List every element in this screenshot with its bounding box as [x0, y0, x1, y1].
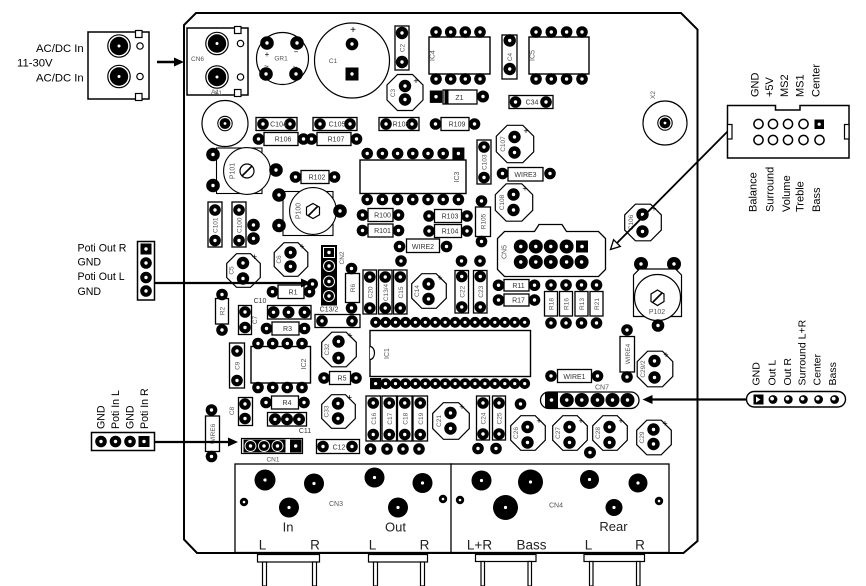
bridge rectifier GR1 [257, 33, 309, 85]
svg-text:+: + [663, 350, 668, 360]
labels Poti Out [78, 243, 127, 299]
connector CN3 [235, 464, 452, 553]
svg-text:L+R: L+R [467, 538, 492, 553]
capacitor C29/2 [637, 350, 673, 387]
svg-text:+: + [459, 402, 464, 412]
capacitor C3 [387, 75, 423, 111]
connector CN5 [498, 225, 606, 277]
svg-text:R11: R11 [512, 283, 524, 290]
svg-text:C28: C28 [595, 427, 602, 439]
capacitor C100 [232, 202, 246, 247]
connector output cable [747, 392, 846, 408]
svg-text:+: + [299, 242, 304, 252]
svg-text:P101: P101 [230, 163, 237, 179]
svg-text:R: R [310, 538, 320, 553]
svg-text:In: In [283, 520, 294, 535]
capacitor C18 [398, 396, 413, 441]
svg-text:Rear: Rear [599, 519, 628, 534]
pad [515, 398, 527, 410]
capacitor C107 [496, 125, 533, 162]
capacitor C27 [553, 416, 588, 451]
pad [381, 443, 393, 455]
svg-text:GND: GND [125, 405, 137, 429]
board outline [184, 13, 698, 553]
svg-text:C100: C100 [237, 217, 244, 233]
capacitor C33 [322, 393, 356, 429]
diode Z1 [430, 90, 489, 104]
svg-text:R4: R4 [283, 400, 292, 407]
capacitor C24 [477, 396, 490, 440]
capacitor C13/4 [379, 270, 393, 314]
svg-text:R103: R103 [442, 214, 459, 221]
label AC/DC In (bottom) [36, 73, 84, 85]
svg-text:Z1: Z1 [455, 95, 463, 102]
svg-text:IC4: IC4 [430, 50, 437, 61]
svg-text:+: + [347, 393, 352, 403]
svg-text:AC/DC In: AC/DC In [36, 43, 84, 55]
svg-text:IC3: IC3 [454, 171, 461, 182]
capacitor C17 [382, 396, 397, 441]
pad [413, 443, 425, 455]
svg-text:C29: C29 [639, 431, 646, 443]
capacitor C104 [256, 118, 297, 131]
resistor R18 [545, 279, 558, 329]
svg-text:GND: GND [78, 257, 102, 269]
svg-text:CN7: CN7 [595, 385, 609, 392]
svg-text:R107: R107 [328, 137, 345, 144]
capacitor C23 [474, 271, 488, 314]
header Poti In [92, 433, 155, 451]
svg-text:+: + [265, 50, 270, 59]
svg-text:L: L [585, 538, 593, 553]
svg-text:WIRE1: WIRE1 [563, 374, 585, 381]
pad [395, 255, 407, 267]
resistor R103 [423, 210, 473, 223]
svg-text:R101: R101 [374, 228, 391, 235]
bottom labels L R [259, 538, 645, 553]
resistor R104 [423, 225, 473, 238]
svg-text:C14: C14 [414, 285, 421, 297]
arrow Poti In to CN1 [155, 438, 239, 447]
svg-text:+: + [523, 126, 528, 136]
resistor R108 [379, 118, 419, 131]
svg-text:MS1: MS1 [795, 74, 807, 97]
svg-text:C13/2: C13/2 [320, 307, 339, 314]
svg-text:C15: C15 [398, 286, 405, 298]
svg-text:GND: GND [78, 286, 102, 298]
svg-text:X1: X1 [214, 90, 222, 97]
svg-text:R: R [635, 538, 645, 553]
svg-text:C9: C9 [235, 361, 242, 370]
labels output cable [751, 319, 840, 385]
capacitor C108 [495, 184, 532, 222]
resistor R106 [253, 133, 310, 146]
svg-text:+5V: +5V [764, 76, 776, 97]
pad [247, 232, 260, 245]
wire control cable to CN5 [611, 132, 728, 250]
svg-text:C107: C107 [500, 136, 507, 152]
labels Poti In [96, 388, 152, 429]
svg-text:+: + [437, 273, 442, 283]
mounting hole X2 [643, 91, 687, 145]
svg-text:+: + [522, 184, 527, 194]
svg-text:R13: R13 [579, 298, 586, 310]
resistor R107 [306, 133, 363, 146]
svg-text:R100: R100 [374, 213, 391, 220]
capacitor C5 [227, 252, 261, 287]
svg-text:R3: R3 [283, 326, 292, 333]
resistor R21 [590, 279, 603, 329]
svg-text:Surround L+R: Surround L+R [797, 319, 809, 385]
capacitor C8 [229, 398, 253, 426]
svg-text:C34: C34 [526, 100, 539, 107]
svg-text:Center: Center [811, 64, 823, 97]
svg-text:−: − [294, 48, 299, 57]
svg-text:Poti Out L: Poti Out L [78, 271, 125, 283]
svg-text:C6: C6 [276, 255, 283, 264]
svg-text:Bass: Bass [827, 362, 839, 385]
Rear jack tabs [584, 555, 645, 586]
wire jumper WIRE3 [497, 168, 556, 182]
resistor R3 [261, 322, 311, 335]
resistor R17 [493, 294, 541, 306]
capacitor C21 [433, 402, 470, 439]
capacitor C6 [274, 242, 308, 277]
connector CN2 [321, 245, 346, 306]
labels control cable bottom [748, 167, 824, 212]
svg-text:Bass: Bass [811, 187, 823, 212]
potentiometer P101 [206, 148, 283, 195]
pad [397, 443, 409, 455]
svg-text:C17: C17 [387, 412, 394, 424]
capacitor C7 [239, 306, 260, 335]
connector control cable (IDC) [728, 106, 850, 159]
svg-text:CN4: CN4 [549, 503, 563, 510]
resistor R105 [476, 195, 491, 247]
resistor R11 [493, 279, 541, 291]
arrow Poti Out to board [155, 279, 312, 288]
pad [456, 255, 468, 267]
svg-text:WIRE3: WIRE3 [514, 172, 536, 179]
svg-text:C2: C2 [400, 43, 407, 52]
resistor R1 [267, 285, 316, 299]
svg-text:IC5: IC5 [530, 50, 537, 61]
header C10 [268, 306, 312, 320]
svg-text:+: + [413, 76, 418, 86]
capacitor C25 [493, 396, 506, 440]
arrow to CN6 [157, 58, 184, 67]
svg-text:L: L [369, 538, 377, 553]
svg-text:P102: P102 [649, 309, 665, 316]
Out jack tabs [369, 555, 428, 586]
svg-text:C24: C24 [481, 412, 488, 424]
pad [365, 443, 377, 455]
svg-text:Treble: Treble [795, 181, 807, 212]
svg-text:C7: C7 [252, 315, 259, 324]
resistor R100 [357, 209, 405, 222]
IC IC1 [370, 317, 531, 389]
capacitor C2 [395, 26, 409, 70]
svg-text:~: ~ [264, 62, 269, 71]
mounting hole X1 [202, 90, 248, 147]
svg-text:C21: C21 [436, 415, 443, 427]
svg-text:GND: GND [96, 405, 108, 429]
pad [584, 447, 596, 459]
svg-text:Balance: Balance [748, 172, 760, 212]
wire jumper WIRE2 [394, 239, 453, 253]
svg-text:+: + [578, 416, 583, 426]
svg-text:CN3: CN3 [329, 501, 343, 508]
svg-text:Surround: Surround [765, 167, 777, 212]
svg-text:C13/4: C13/4 [383, 283, 390, 301]
svg-text:WIRE4: WIRE4 [625, 343, 632, 364]
capacitor C20 [363, 270, 377, 314]
capacitor C1 [315, 23, 390, 98]
svg-text:R106: R106 [275, 137, 292, 144]
capacitor C32 [322, 331, 357, 367]
svg-text:C26: C26 [513, 427, 520, 439]
svg-text:CN6: CN6 [191, 56, 204, 63]
labels control cable top [750, 64, 823, 97]
capacitor C26 [511, 416, 546, 451]
capacitor C28 [593, 416, 628, 451]
external AC/DC terminal block [88, 31, 149, 101]
svg-text:Poti In R: Poti In R [139, 388, 151, 429]
svg-text:R104: R104 [442, 229, 459, 236]
svg-text:Center: Center [812, 353, 824, 385]
pad [307, 279, 318, 290]
svg-text:R17: R17 [512, 298, 525, 305]
svg-text:IC2: IC2 [301, 358, 308, 369]
svg-text:R105: R105 [481, 213, 488, 229]
label 11-30V [17, 58, 53, 70]
capacitor C15 [394, 270, 408, 314]
svg-text:Out R: Out R [782, 358, 794, 386]
resistor R6 [346, 263, 360, 314]
wire jumper WIRE4 [620, 324, 635, 383]
svg-text:+: + [252, 252, 257, 262]
svg-text:P100: P100 [296, 203, 303, 219]
svg-text:C1: C1 [329, 58, 338, 65]
resistor R102 [290, 171, 341, 184]
svg-text:Poti In L: Poti In L [110, 390, 122, 429]
svg-text:MS2: MS2 [779, 74, 791, 97]
wire jumper WIRE6 [206, 404, 220, 462]
svg-text:C29/2: C29/2 [640, 360, 647, 378]
resistor R109 [430, 118, 481, 131]
svg-text:C3: C3 [390, 88, 397, 97]
svg-text:C18: C18 [402, 412, 409, 424]
connector CN4 [451, 464, 669, 553]
svg-text:Out: Out [385, 520, 406, 535]
svg-text:C5: C5 [229, 266, 236, 275]
svg-text:CN2: CN2 [339, 251, 346, 264]
wire jumper WIRE1 [545, 370, 603, 383]
header C11 [268, 413, 312, 436]
svg-text:C16: C16 [371, 412, 378, 424]
capacitor C16 [366, 396, 381, 441]
svg-text:C103: C103 [482, 154, 489, 170]
svg-text:C10: C10 [254, 298, 267, 305]
capacitor C34 [509, 96, 553, 109]
connector CN7 [541, 385, 640, 409]
svg-text:GND: GND [750, 73, 762, 98]
svg-text:C11: C11 [299, 428, 311, 435]
svg-text:C4: C4 [507, 52, 514, 61]
In jack tabs [258, 555, 320, 586]
svg-text:+: + [618, 416, 623, 426]
svg-text:R16: R16 [564, 298, 571, 310]
svg-text:R1: R1 [289, 289, 298, 296]
svg-text:Volume: Volume [781, 175, 793, 212]
svg-text:+: + [347, 331, 352, 341]
svg-text:R21: R21 [594, 298, 601, 310]
svg-text:AC/DC In: AC/DC In [36, 73, 84, 85]
svg-text:+: + [662, 419, 667, 429]
svg-text:IC1: IC1 [384, 348, 391, 359]
svg-text:R109: R109 [449, 122, 466, 129]
resistor R13 [575, 279, 588, 329]
capacitor C29 [637, 419, 672, 455]
svg-text:C23: C23 [478, 285, 485, 297]
svg-text:+: + [350, 25, 356, 36]
svg-text:GND: GND [751, 362, 763, 386]
svg-text:R18: R18 [549, 298, 556, 310]
svg-text:R108: R108 [393, 122, 410, 129]
svg-text:CN1: CN1 [266, 457, 279, 464]
svg-text:C105: C105 [329, 122, 346, 129]
svg-text:GR1: GR1 [274, 56, 288, 63]
resistor R16 [560, 279, 573, 329]
svg-text:Bass: Bass [516, 538, 546, 553]
svg-text:11-30V: 11-30V [17, 58, 53, 70]
IC IC2 [251, 338, 311, 394]
label AC/DC In (top) [36, 43, 84, 55]
svg-text:R6: R6 [350, 283, 357, 292]
pad [490, 443, 502, 455]
svg-text:C33: C33 [324, 405, 331, 417]
resistor R101 [357, 224, 405, 237]
svg-text:R5: R5 [338, 376, 347, 383]
capacitor C103 [477, 140, 491, 184]
resistor R2 [216, 289, 229, 336]
capacitor C101 [208, 202, 222, 247]
capacitor C13/2 [315, 307, 360, 328]
IC IC5 [529, 26, 589, 85]
potentiometer P100 [272, 188, 347, 236]
capacitor C4 [502, 34, 517, 79]
svg-text:C27: C27 [555, 427, 562, 439]
Bass jack tabs [476, 555, 537, 586]
svg-text:R: R [420, 538, 430, 553]
pad [472, 443, 484, 455]
svg-text:CN5: CN5 [502, 245, 509, 259]
pad [247, 219, 260, 232]
svg-text:Poti Out R: Poti Out R [78, 243, 127, 255]
capacitor C19 [413, 396, 428, 441]
svg-text:C8: C8 [229, 406, 236, 415]
svg-text:WIRE2: WIRE2 [412, 244, 434, 251]
svg-text:X2: X2 [650, 91, 657, 99]
label C10 [254, 298, 267, 305]
capacitor C9 [230, 343, 245, 388]
resistor R4 [260, 396, 310, 409]
capacitor C105 [313, 118, 357, 131]
svg-text:C104: C104 [270, 122, 287, 129]
capacitor C14 [412, 273, 447, 308]
capacitor C106 [625, 204, 662, 241]
potentiometer P102 [634, 257, 682, 332]
header Poti Out [138, 242, 155, 301]
capacitor C22 [455, 271, 469, 314]
pad [474, 255, 486, 267]
resistor R5 [318, 372, 362, 385]
svg-text:C32: C32 [324, 343, 331, 355]
svg-text:C101: C101 [213, 217, 220, 233]
arrow output cable to CN7 [643, 395, 747, 404]
IC IC3 [360, 148, 466, 206]
svg-text:Out L: Out L [767, 360, 779, 386]
svg-text:C108: C108 [499, 194, 506, 210]
connector CN6 [187, 27, 248, 97]
svg-text:R2: R2 [220, 306, 227, 315]
IC IC4 [429, 26, 490, 85]
svg-text:R102: R102 [309, 175, 326, 182]
connector CN1 [242, 439, 303, 464]
svg-text:C25: C25 [497, 412, 504, 424]
capacitor C12 [317, 440, 360, 454]
svg-text:C22: C22 [459, 285, 466, 297]
svg-text:C12: C12 [333, 445, 346, 452]
svg-text:~: ~ [293, 63, 298, 72]
svg-text:L: L [259, 538, 267, 553]
svg-text:C20: C20 [367, 286, 374, 298]
svg-text:C19: C19 [418, 412, 425, 424]
svg-text:+: + [536, 416, 541, 426]
